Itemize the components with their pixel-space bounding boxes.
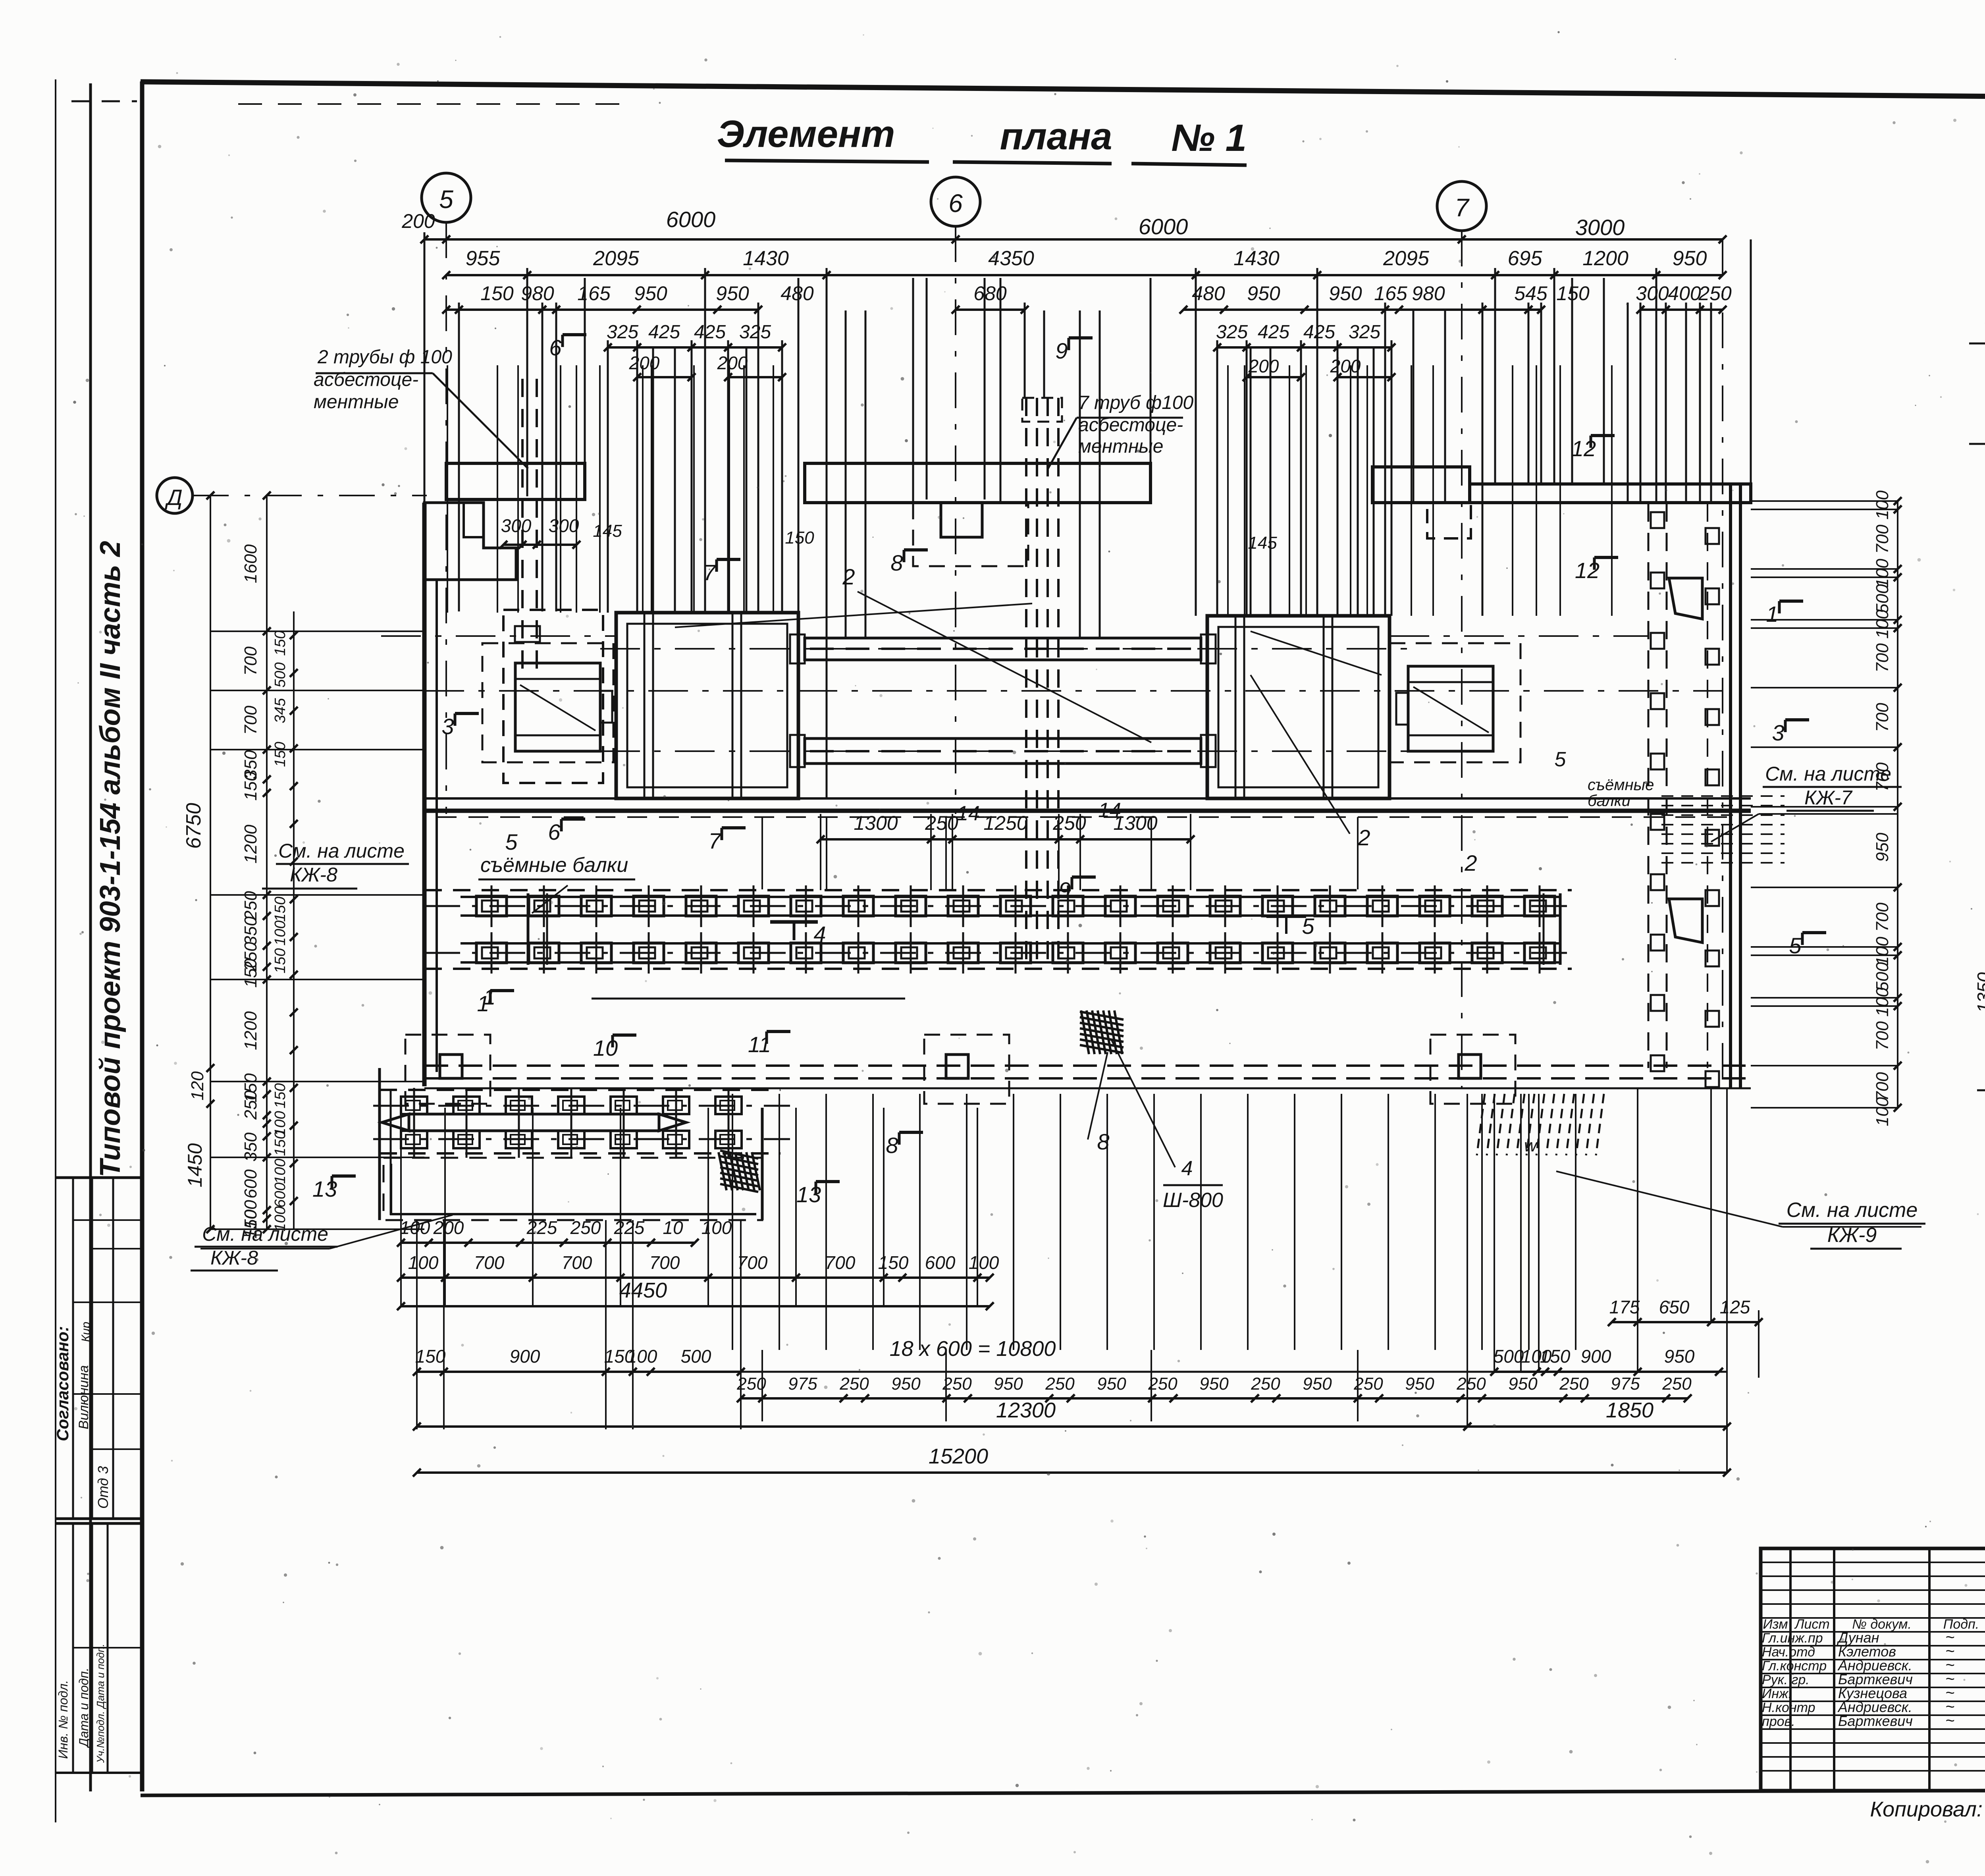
wing channel boundary dashed	[380, 1089, 781, 1091]
boiler foundation left diagonal leader	[675, 603, 1032, 627]
svg-text:1430: 1430	[743, 247, 789, 270]
svg-text:100: 100	[701, 1217, 732, 1238]
svg-text:Дата и подп.: Дата и подп.	[77, 1668, 91, 1748]
svg-text:100: 100	[1873, 490, 1892, 520]
svg-text:13: 13	[796, 1182, 821, 1207]
svg-text:съёмные балки: съёмные балки	[480, 854, 628, 877]
svg-text:700: 700	[1873, 762, 1892, 792]
wing trough	[409, 1114, 659, 1131]
svg-text:9: 9	[1058, 877, 1071, 902]
section flag 5 right	[1801, 933, 1804, 945]
svg-text:съёмные: съёмные	[1588, 776, 1654, 794]
svg-text:балки: балки	[1588, 792, 1630, 810]
section flag 10	[611, 1035, 614, 1047]
svg-text:950: 950	[1405, 1374, 1434, 1394]
section flag 9 top	[1068, 338, 1070, 350]
asbestos pipes pair left	[521, 379, 524, 677]
svg-text:250: 250	[1148, 1374, 1178, 1394]
dimension extension lines	[424, 232, 426, 798]
svg-text:200: 200	[401, 210, 435, 232]
channel bolts row 1	[476, 896, 507, 916]
svg-text:13: 13	[312, 1176, 337, 1201]
bottom dims row 150 900	[417, 1371, 741, 1373]
svg-text:Изм: Изм	[1763, 1617, 1788, 1632]
svg-text:250: 250	[1559, 1374, 1589, 1394]
bottom right dims 500 100 150 900 950	[1494, 1371, 1719, 1373]
equipment block left	[515, 663, 600, 751]
right bottom verticals	[1467, 1094, 1468, 1427]
svg-text:пров.: пров.	[1762, 1714, 1795, 1729]
left chain horizontal connectors	[210, 630, 424, 632]
svg-text:980: 980	[521, 282, 554, 305]
svg-text:300: 300	[549, 515, 579, 536]
svg-text:600: 600	[272, 1182, 289, 1207]
plan horizontal line equip tops	[381, 635, 616, 637]
equipment block right	[1408, 666, 1493, 751]
bottom dims 15200	[417, 1471, 1727, 1474]
svg-text:225: 225	[614, 1217, 645, 1238]
title block signature rows	[1761, 1631, 1985, 1633]
wing bolts row 1	[401, 1097, 427, 1114]
dimension row 955 2095 1430 4350 1430 2095 695 1200 950	[446, 274, 1723, 276]
svg-text:325: 325	[607, 322, 638, 343]
right room hopper top	[1669, 578, 1702, 619]
svg-text:100: 100	[1873, 987, 1892, 1017]
removable beams channel boundary dashed	[424, 889, 1572, 891]
axis circle 5	[422, 173, 471, 222]
svg-text:Элемент: Элемент	[717, 113, 895, 155]
bottom right dims 175 650 125	[1612, 1321, 1759, 1323]
top beam right short	[1372, 467, 1470, 503]
svg-text:950: 950	[1873, 833, 1892, 862]
svg-text:500: 500	[681, 1346, 711, 1367]
svg-text:700: 700	[737, 1252, 768, 1273]
svg-text:165: 165	[1374, 282, 1407, 305]
svg-text:4: 4	[1181, 1157, 1193, 1180]
svg-text:11: 11	[748, 1032, 771, 1057]
svg-text:12: 12	[1571, 436, 1596, 461]
svg-text:ментные: ментные	[314, 391, 399, 413]
svg-text:Согласовано:: Согласовано:	[53, 1326, 72, 1441]
channel centerline 2	[424, 952, 1572, 954]
svg-text:325: 325	[1216, 322, 1248, 343]
svg-text:4450: 4450	[619, 1278, 667, 1302]
svg-text:Типовой проект 903-1-154: Типовой проект 903-1-154 альбом II часть…	[94, 541, 126, 1177]
svg-text:100: 100	[272, 1159, 289, 1184]
section flag 11	[765, 1032, 768, 1044]
svg-text:1200: 1200	[241, 1011, 260, 1050]
svg-text:6750: 6750	[182, 803, 205, 849]
svg-text:500: 500	[272, 662, 289, 687]
svg-text:Кир: Кир	[79, 1322, 93, 1342]
title block vertical dividers left part	[1789, 1548, 1792, 1791]
svg-text:200: 200	[629, 353, 660, 373]
svg-text:См. на листе: См. на листе	[202, 1223, 328, 1245]
lower pit outline dashed	[384, 1158, 762, 1220]
section flag 7 upper	[715, 559, 718, 572]
svg-text:700: 700	[241, 646, 260, 676]
svg-text:Барткевич: Барткевич	[1838, 1713, 1913, 1729]
channel centerline 1	[424, 905, 1572, 907]
svg-text:ментные: ментные	[1078, 436, 1163, 457]
svg-text:100: 100	[1873, 937, 1892, 966]
svg-text:950: 950	[1199, 1374, 1229, 1394]
svg-text:100: 100	[400, 1217, 430, 1238]
svg-text:150: 150	[1540, 1346, 1571, 1367]
pipe bundle top rect	[1022, 398, 1062, 422]
hall left wall	[422, 503, 427, 1086]
section flag 3 right	[1784, 720, 1787, 732]
svg-text:Вилюнина: Вилюнина	[76, 1365, 91, 1429]
svg-text:680: 680	[973, 282, 1007, 305]
svg-text:425: 425	[1303, 322, 1335, 343]
section flag 12 right	[1590, 436, 1592, 448]
bottom dims row 250 950 series	[741, 1397, 1688, 1400]
svg-text:150: 150	[272, 1131, 289, 1156]
svg-text:12: 12	[1575, 558, 1600, 583]
svg-text:695: 695	[1508, 247, 1543, 270]
hall bottom wall columns	[440, 1055, 462, 1078]
right room stud rects column 1	[1651, 512, 1664, 528]
svg-text:350: 350	[241, 916, 260, 946]
svg-text:5: 5	[1789, 933, 1802, 958]
verticals through hall mid	[761, 817, 763, 889]
dimension row fourth 325 425 425 325	[608, 346, 782, 349]
right room stud rects column 2	[1706, 528, 1719, 544]
svg-text:6000: 6000	[1139, 214, 1188, 239]
svg-text:150: 150	[241, 958, 260, 988]
boiler foundation left	[616, 613, 798, 798]
svg-text:950: 950	[1303, 1374, 1332, 1394]
right beam notch	[1427, 503, 1471, 538]
svg-text:545: 545	[1514, 282, 1548, 305]
svg-text:150: 150	[272, 630, 289, 656]
extra vertical extension lines upper plan	[652, 348, 654, 613]
top beam middle	[805, 463, 1151, 503]
svg-text:100: 100	[1873, 559, 1892, 588]
svg-text:975: 975	[788, 1374, 817, 1394]
svg-text:12300: 12300	[996, 1398, 1056, 1422]
left corner step structure	[424, 503, 516, 580]
plan horizontal centerline rails bottom	[600, 750, 1408, 752]
plan horizontal centerline upper	[424, 690, 1723, 692]
svg-text:18 х 600 = 10800: 18 х 600 = 10800	[890, 1337, 1056, 1361]
svg-text:1200: 1200	[241, 825, 260, 864]
svg-text:250: 250	[1045, 1374, 1075, 1394]
svg-text:300: 300	[1636, 282, 1669, 305]
section flag 6 lower	[560, 819, 563, 831]
svg-text:165: 165	[577, 282, 611, 305]
svg-text:325: 325	[1349, 322, 1380, 343]
dimension 200 marks	[637, 376, 692, 378]
svg-text:100: 100	[272, 920, 289, 945]
section flag 8 lower	[898, 1132, 901, 1145]
svg-text:3: 3	[441, 714, 454, 739]
svg-text:Копировал: Тукм: Копировал: Тукм	[1870, 1797, 1985, 1821]
svg-text:650: 650	[1659, 1297, 1690, 1317]
svg-text:4350: 4350	[988, 247, 1034, 270]
svg-text:плана: плана	[1000, 115, 1112, 158]
svg-text:1: 1	[477, 991, 489, 1016]
right room wall solid	[1729, 486, 1732, 1088]
svg-text:1250: 1250	[983, 812, 1027, 834]
svg-text:w: w	[1524, 1136, 1538, 1155]
svg-text:250: 250	[839, 1374, 869, 1394]
bottom dims row 700s	[401, 1276, 990, 1279]
svg-text:250: 250	[1353, 1374, 1383, 1394]
dimension row third	[446, 308, 758, 311]
svg-text:125: 125	[1720, 1297, 1750, 1317]
svg-text:225: 225	[526, 1217, 557, 1238]
channel bolts row 2	[476, 943, 507, 963]
svg-text:250: 250	[241, 1090, 260, 1120]
right room stud wall 2	[1707, 503, 1708, 1068]
svg-text:7: 7	[708, 828, 721, 853]
svg-text:150: 150	[878, 1252, 909, 1273]
svg-text:7 труб ф100: 7 труб ф100	[1078, 392, 1193, 413]
bottom dims row small	[401, 1242, 695, 1244]
svg-text:500: 500	[1873, 962, 1892, 991]
drawing frame left border	[140, 81, 145, 1791]
svg-text:150: 150	[272, 948, 289, 973]
svg-text:Лист: Лист	[1794, 1617, 1830, 1632]
section flag 13 left	[331, 1176, 333, 1188]
right room hopper bottom	[1669, 899, 1702, 943]
wing arrow left	[382, 1114, 409, 1131]
svg-text:5: 5	[439, 185, 453, 214]
svg-text:950: 950	[994, 1374, 1023, 1394]
svg-text:250: 250	[1251, 1374, 1280, 1394]
svg-text:950: 950	[634, 282, 667, 305]
svg-text:900: 900	[1581, 1346, 1611, 1367]
svg-text:950: 950	[1673, 247, 1707, 270]
section flag 8 upper	[903, 550, 906, 562]
svg-text:150: 150	[480, 282, 514, 305]
svg-text:100: 100	[969, 1252, 999, 1273]
svg-text:950: 950	[1097, 1374, 1126, 1394]
svg-text:200: 200	[433, 1217, 464, 1238]
svg-text:100: 100	[627, 1346, 657, 1367]
drawing frame top border	[141, 82, 1985, 101]
boiler foundation right	[1207, 616, 1389, 798]
svg-text:1350: 1350	[1973, 972, 1985, 1013]
long verticals to 12300 line	[761, 1350, 763, 1421]
svg-text:1200: 1200	[1582, 247, 1628, 270]
section flag 3 left	[454, 713, 457, 726]
svg-text:5: 5	[1302, 914, 1314, 939]
svg-text:145: 145	[593, 521, 622, 541]
svg-text:7: 7	[703, 560, 716, 585]
svg-text:2: 2	[1357, 825, 1370, 850]
svg-text:700: 700	[1873, 1072, 1892, 1101]
rail end caps	[790, 634, 805, 663]
svg-text:700: 700	[562, 1252, 592, 1273]
svg-text:250: 250	[942, 1374, 972, 1394]
frame top secondary line	[238, 103, 619, 105]
svg-text:1300: 1300	[1113, 812, 1157, 834]
svg-text:300: 300	[501, 515, 532, 536]
wing centerline 1	[373, 1105, 790, 1107]
central rail top	[805, 638, 1201, 660]
section flag 1 lower	[489, 991, 492, 1003]
title block thin top rows	[1761, 1562, 1985, 1563]
svg-text:КЖ-8: КЖ-8	[290, 864, 337, 886]
svg-text:600: 600	[241, 1169, 260, 1199]
section flag 9 lower	[1071, 877, 1073, 889]
dashed pit below middle beam	[913, 503, 1028, 566]
right hatched zone	[1477, 1094, 1485, 1155]
svg-text:Д: Д	[164, 485, 182, 510]
svg-text:250: 250	[1052, 812, 1086, 834]
column grid verticals 600 spacing	[732, 1094, 733, 1350]
label 1300 row	[821, 838, 1191, 841]
svg-text:~: ~	[1945, 1712, 1954, 1729]
svg-text:2 трубы ф 100: 2 трубы ф 100	[317, 347, 452, 368]
svg-text:Инв. № подл.: Инв. № подл.	[56, 1680, 70, 1759]
svg-text:200: 200	[1330, 356, 1361, 376]
svg-text:8: 8	[890, 550, 903, 575]
hall top wall	[424, 797, 1751, 800]
svg-text:Ш-800: Ш-800	[1163, 1189, 1223, 1212]
label 1 leader mid	[592, 998, 905, 1000]
wing bolts row 2	[401, 1131, 427, 1148]
title block outer box	[1761, 1548, 1985, 1791]
svg-text:Инж.: Инж.	[1762, 1686, 1792, 1701]
svg-text:10: 10	[593, 1035, 618, 1060]
svg-text:425: 425	[648, 322, 680, 343]
svg-text:2095: 2095	[593, 247, 640, 270]
section flag 7 lower	[721, 828, 723, 840]
svg-text:150: 150	[272, 742, 289, 767]
dense verticals left cluster	[447, 365, 448, 613]
svg-text:250: 250	[1456, 1374, 1486, 1394]
svg-text:700: 700	[825, 1252, 856, 1273]
svg-text:2095: 2095	[1383, 247, 1430, 270]
dashed contour left equipment	[482, 643, 613, 762]
central rail bottom	[805, 738, 1201, 764]
top beam left	[446, 463, 585, 499]
axis circle 6	[931, 177, 980, 226]
svg-text:Гл.констр: Гл.констр	[1762, 1658, 1827, 1674]
svg-text:Отд 3: Отд 3	[95, 1466, 111, 1509]
svg-text:150: 150	[785, 528, 814, 548]
svg-text:2: 2	[842, 564, 855, 589]
svg-text:Гл.инж.пр: Гл.инж.пр	[1762, 1631, 1823, 1646]
svg-text:955: 955	[466, 247, 501, 270]
svg-text:150: 150	[272, 1083, 289, 1108]
svg-text:5: 5	[505, 829, 518, 854]
svg-text:Уч.№подл. Дата и подп.: Уч.№подл. Дата и подп.	[94, 1644, 106, 1763]
svg-text:№ 1: № 1	[1171, 117, 1247, 159]
right room stud wall dashed band	[1648, 503, 1650, 1068]
bottom dims 4450	[401, 1305, 990, 1307]
svg-text:700: 700	[1873, 1021, 1892, 1051]
svg-text:480: 480	[1192, 282, 1225, 305]
wing centerline 2	[373, 1138, 790, 1140]
svg-text:150: 150	[241, 771, 260, 801]
svg-text:5: 5	[1555, 748, 1567, 771]
channel rail lines row 2	[461, 942, 1560, 945]
svg-text:400: 400	[1668, 282, 1701, 305]
asbestos pipes bundle middle	[1025, 398, 1027, 965]
svg-text:425: 425	[694, 322, 726, 343]
svg-text:7: 7	[1455, 193, 1470, 222]
svg-text:10: 10	[663, 1217, 683, 1238]
svg-text:250: 250	[1662, 1374, 1692, 1394]
hall bottom wall	[424, 1064, 1751, 1067]
svg-text:См. на листе: См. на листе	[1786, 1199, 1918, 1222]
svg-text:980: 980	[1412, 282, 1445, 305]
svg-text:700: 700	[474, 1252, 505, 1273]
hatch blob lower left	[720, 1151, 758, 1159]
dense verticals right cluster	[1227, 365, 1229, 616]
dimension row spans 6000 6000 3000	[424, 238, 1723, 241]
axis circle D	[157, 478, 193, 513]
svg-text:950: 950	[891, 1374, 921, 1394]
svg-text:Рук. гр.: Рук. гр.	[1762, 1672, 1810, 1687]
svg-text:175: 175	[1609, 1297, 1640, 1317]
svg-text:1430: 1430	[1233, 247, 1280, 270]
svg-text:250: 250	[1698, 282, 1732, 305]
label 4 flag left	[770, 920, 818, 924]
svg-text:6: 6	[548, 819, 561, 844]
svg-text:6: 6	[549, 335, 562, 360]
verticals from 1300 dim row to channel	[820, 814, 821, 890]
channel right end cap	[1559, 893, 1562, 965]
bottom dims 1850	[1467, 1425, 1727, 1428]
sidebar lower table	[56, 1522, 142, 1525]
svg-text:950: 950	[1247, 282, 1280, 305]
svg-text:700: 700	[241, 706, 260, 735]
svg-text:6: 6	[948, 189, 963, 218]
svg-text:6000: 6000	[666, 207, 716, 232]
svg-text:9: 9	[1055, 338, 1068, 363]
hall bottom wall dashed column pits	[405, 1035, 490, 1104]
section flag 13 right	[815, 1182, 817, 1194]
svg-text:8: 8	[1097, 1129, 1109, 1154]
svg-text:325: 325	[739, 322, 771, 343]
bottom dims 12300	[417, 1425, 1467, 1428]
right chain	[1897, 501, 1898, 1108]
svg-text:14: 14	[957, 802, 980, 825]
svg-text:900: 900	[510, 1346, 540, 1367]
svg-text:500: 500	[1873, 584, 1892, 613]
svg-text:700: 700	[1873, 703, 1892, 732]
boiler foundation right diagonal leader	[1251, 631, 1382, 675]
right room ladder marks	[1661, 795, 1785, 797]
svg-text:950: 950	[716, 282, 749, 305]
svg-text:3000: 3000	[1575, 215, 1625, 240]
svg-text:100: 100	[408, 1252, 439, 1273]
left chain inner	[266, 496, 268, 1229]
svg-text:600: 600	[925, 1252, 956, 1273]
svg-text:КЖ-8: КЖ-8	[210, 1247, 258, 1269]
sheet left edge line	[55, 79, 56, 1822]
sidebar approval table	[56, 1176, 142, 1179]
svg-text:120: 120	[188, 1071, 207, 1101]
right end axis line	[1722, 239, 1723, 1088]
svg-text:15200: 15200	[929, 1444, 988, 1468]
axis circle 7	[1437, 181, 1486, 231]
top left corner dashes	[71, 100, 137, 102]
lower left structure vertical	[378, 1068, 381, 1220]
svg-text:Нач.отд: Нач.отд	[1762, 1645, 1815, 1660]
section flag 1 right	[1778, 601, 1781, 613]
dashed contour right equipment	[1389, 643, 1521, 762]
left dashed pit outline	[503, 610, 603, 783]
svg-text:4: 4	[813, 922, 826, 947]
plan horizontal centerline rails top	[600, 648, 1408, 650]
